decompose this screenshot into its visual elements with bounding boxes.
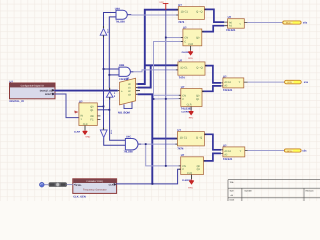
- wire IC2 pin2 lavender L: [154, 42, 183, 100]
- svg-text:U?: U?: [181, 154, 185, 157]
- bus H bottom to IC7: [152, 138, 177, 140]
- wire IC3 to port1: [247, 22, 283, 24]
- svg-text:s2s: s2s: [302, 150, 307, 153]
- port3: [284, 149, 301, 153]
- wire U4B in1: [104, 68, 120, 70]
- IC9 CLR pin stub: [191, 175, 193, 180]
- VCC power port red: [159, 1, 168, 10]
- mux U5: [120, 78, 136, 105]
- svg-text:U?: U?: [177, 129, 181, 132]
- IC6 power port red: [189, 110, 193, 114]
- IC9 power port red: [189, 179, 193, 184]
- svg-text:1D C1: 1D C1: [180, 136, 188, 139]
- wire branch to IC9 pin1: [146, 144, 181, 166]
- off-sheet connector (blue circle): [39, 182, 44, 187]
- svg-text:FC: FC: [90, 118, 94, 121]
- svg-text:Q ~Q: Q ~Q: [196, 136, 202, 139]
- svg-text:74LS08: 74LS08: [116, 20, 126, 23]
- wire IC8 to port3: [248, 150, 285, 152]
- svg-text:U?: U?: [181, 86, 185, 89]
- sheet symbol U_DigitalIO "Configurable Digital IO": [10, 83, 56, 99]
- svg-text:CN: CN: [184, 37, 188, 40]
- svg-text:NO_BOM: NO_BOM: [118, 112, 131, 115]
- mux pin4 no-connect stub: [136, 90, 140, 92]
- svg-text:U4C: U4C: [126, 135, 131, 138]
- IC7 flip-flop U1C: [175, 132, 206, 146]
- wire sheet1 BOUT to IC10: [54, 94, 79, 118]
- IC6 counter U2B: [179, 89, 204, 107]
- wire U4B in2: [109, 74, 119, 76]
- svg-text:BCD: BCD: [286, 22, 291, 25]
- port2: [285, 80, 302, 84]
- triangle symbol T1: [100, 26, 107, 37]
- wire to IC6 pin2: [154, 98, 181, 100]
- svg-text:BCD: BCD: [288, 81, 293, 84]
- IC2 CLR pin stub: [190, 46, 192, 51]
- svg-text:7474: 7474: [177, 148, 183, 151]
- wire U4A out to IC1: [131, 14, 178, 16]
- wire IC10 pin1: [97, 105, 103, 107]
- wire triangle T3 tail to U4C in2: [104, 138, 126, 146]
- svg-text:74LS21: 74LS21: [223, 89, 233, 92]
- sheet entry CLKOUT out: [109, 183, 117, 186]
- AND gate U4B: [119, 67, 133, 76]
- sheet entry XTAL in: [74, 184, 82, 187]
- IC10 power port red GND: [83, 130, 87, 134]
- svg-text:Number: Number: [245, 189, 253, 192]
- IC3 buffer U3A: [224, 19, 247, 29]
- svg-text:U?: U?: [79, 100, 83, 103]
- svg-text:7474: 7474: [178, 21, 184, 24]
- triangle symbol T2: [106, 88, 113, 100]
- IC2 counter U2A: [181, 29, 204, 46]
- svg-text:A0 A1: A0 A1: [224, 150, 231, 153]
- thick connector IC9 to IC8: [204, 153, 222, 161]
- svg-text:74LS21: 74LS21: [223, 158, 233, 161]
- thick connector IC2 to IC3: [202, 26, 224, 32]
- bus V2 from H mid to mux pin2: [138, 65, 151, 87]
- wire rail to IC2 pin1: [166, 37, 183, 39]
- AND gate U4C: [125, 139, 141, 150]
- svg-text:74LS393: 74LS393: [181, 107, 192, 110]
- svg-text:s0s: s0s: [303, 22, 308, 25]
- mux pin1 stub: [136, 83, 138, 85]
- sheet entry BOUT out: [45, 93, 55, 96]
- triangle symbol T3 inverted: [100, 128, 107, 138]
- svg-text:CLR: CLR: [187, 172, 192, 175]
- wire sheet2 out to IC9: [116, 169, 181, 184]
- wire crystal left: [44, 184, 49, 186]
- svg-text:BCD: BCD: [287, 150, 292, 153]
- svg-text:Revision: Revision: [306, 189, 315, 192]
- svg-text:CLR: CLR: [187, 104, 192, 107]
- svg-text:CLK: CLK: [109, 184, 114, 187]
- svg-text:74LS08: 74LS08: [119, 78, 129, 81]
- mux pin2 stub: [136, 87, 138, 89]
- svg-text:U?: U?: [223, 144, 227, 147]
- wire IC5 to port2: [248, 81, 285, 83]
- bus V1 vertical with top bend to IC1: [138, 10, 179, 84]
- svg-text:U?: U?: [223, 75, 227, 78]
- wire U4A in1 vertical chain: [104, 13, 117, 27]
- IC10 red directive marker: [75, 111, 79, 113]
- svg-text:DIGIO[7..0]: DIGIO[7..0]: [40, 90, 52, 93]
- svg-text:s1s: s1s: [304, 81, 309, 84]
- wire below triangle T2 to U4C in1: [110, 97, 126, 140]
- wire U4C out to IC7: [141, 143, 177, 145]
- svg-text:CLK_GEN: CLK_GEN: [73, 196, 86, 199]
- bus V3 from mux pin3 down: [138, 94, 153, 184]
- IC6 CLR pin stub: [190, 107, 192, 111]
- svg-text:A0 A1: A0 A1: [224, 81, 231, 84]
- sheet entry DIGIO bus out: [40, 89, 55, 92]
- wire below triangle T1: [103, 35, 105, 129]
- junction dots: [103, 37, 167, 185]
- IC8 buffer U3C: [221, 147, 248, 157]
- svg-text:Q1: Q1: [197, 168, 201, 171]
- svg-text:Frequency Generator: Frequency Generator: [83, 189, 107, 192]
- svg-text:U?: U?: [179, 59, 183, 62]
- svg-text:U?: U?: [228, 16, 232, 19]
- svg-text:U4B: U4B: [119, 64, 124, 67]
- svg-text:GND: GND: [85, 136, 90, 139]
- IC10 CLK pin stub: [84, 126, 86, 131]
- svg-text:CLKR: CLKR: [74, 130, 80, 133]
- thick connector IC1 to IC3: [204, 9, 224, 22]
- bus H mid to IC4: [145, 64, 178, 66]
- svg-text:BOUT: BOUT: [45, 93, 52, 96]
- svg-text:U?: U?: [10, 81, 14, 84]
- title block: [228, 180, 320, 201]
- thick connector IC7 to IC8: [204, 134, 221, 150]
- thick connector IC6 to IC5: [202, 86, 221, 91]
- mux bus pin stub: [118, 90, 120, 92]
- svg-text:DIGITAL_IO: DIGITAL_IO: [10, 100, 24, 103]
- svg-text:CLR: CLR: [188, 43, 193, 46]
- wire IC10 pin2: [97, 109, 109, 111]
- svg-text:C: C: [182, 98, 184, 101]
- svg-text:C: C: [182, 168, 184, 171]
- thick connector IC4 to IC5: [205, 66, 221, 83]
- svg-text:74LS21: 74LS21: [226, 29, 236, 32]
- IC10 oscillator: [79, 103, 97, 126]
- sheet symbol U_ClkGen "Frequency Generator": [73, 179, 117, 194]
- crystal Y1: [49, 183, 67, 187]
- wire crystal to sheet2: [67, 184, 74, 186]
- svg-text:CLK8MHZ FREQ: CLK8MHZ FREQ: [86, 180, 103, 183]
- svg-text:XTAL: XTAL: [76, 184, 82, 187]
- stub IC10 pin3: [97, 115, 100, 117]
- IC9 counter U2C: [179, 157, 206, 175]
- bus from sheet1 to mux (thick): [54, 90, 117, 92]
- IC5 buffer U3B: [221, 78, 248, 88]
- wire U4A in2 vertical chain: [109, 17, 116, 88]
- stub IC10 pin4: [97, 118, 100, 120]
- svg-text:U?: U?: [178, 4, 182, 7]
- IC4 flip-flop U1B: [176, 62, 207, 75]
- svg-text:RFD: RFD: [188, 57, 193, 60]
- svg-text:74LS08: 74LS08: [124, 150, 134, 153]
- wire VCC vertical rail: [165, 10, 167, 166]
- wire U4B out to IC4: [133, 70, 178, 72]
- svg-text:1D C1: 1D C1: [180, 66, 188, 69]
- svg-text:U?: U?: [183, 26, 187, 29]
- svg-text:7474: 7474: [179, 77, 185, 80]
- svg-text:RFD: RFD: [188, 186, 193, 189]
- svg-text:Configurable Digital IO: Configurable Digital IO: [21, 85, 44, 88]
- svg-text:U4A: U4A: [115, 8, 120, 11]
- svg-text:Q ~Q: Q ~Q: [196, 11, 202, 14]
- svg-text:Q ~Q: Q ~Q: [196, 66, 202, 69]
- wire mux under loop: [124, 101, 132, 108]
- wire to IC6 pin1: [154, 94, 181, 96]
- IC1 flip-flop U1A: [176, 7, 206, 20]
- IC2 power port red: [188, 50, 192, 54]
- svg-text:1D C1: 1D C1: [181, 11, 189, 14]
- mux pin3 stub: [136, 93, 138, 95]
- svg-text:C: C: [184, 40, 186, 43]
- port1: [283, 21, 301, 25]
- svg-text:RFD: RFD: [189, 117, 194, 120]
- svg-text:CLK: CLK: [83, 123, 88, 126]
- AND gate U4A: [116, 10, 131, 19]
